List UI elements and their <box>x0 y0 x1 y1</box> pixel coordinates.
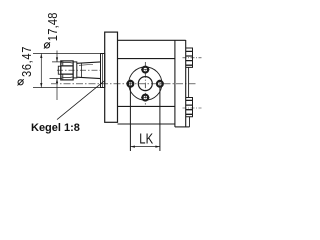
pilot circle Ø36,47 front <box>129 67 162 100</box>
pilot boss <box>101 54 105 88</box>
rear cover outer skin line <box>188 67 191 127</box>
bottom port boss <box>186 98 193 117</box>
LK dimension line <box>130 146 160 148</box>
diameter symbol for 17,48 <box>44 42 50 48</box>
bottom port centerline <box>183 107 202 109</box>
rear cover right edge <box>185 40 187 127</box>
svg-text:36,47: 36,47 <box>19 46 34 77</box>
dimension Ø17,48: dimension line with outside arrows <box>56 51 58 101</box>
washer <box>73 62 77 78</box>
tapered shaft (Kegel 1:8) <box>77 62 101 79</box>
thread relief line on taper <box>81 63 83 77</box>
svg-text:LK: LK <box>139 130 153 147</box>
leader line for Kegel 1:8 <box>57 80 105 119</box>
dimension Ø36,47: extension lines <box>33 54 101 88</box>
front view flange bottom edge <box>118 105 175 107</box>
shaft threaded tip <box>58 66 61 74</box>
front view body top edge <box>118 39 186 41</box>
top port boss <box>186 48 193 67</box>
rear cover left edge <box>174 40 176 127</box>
LK dimension extension lines <box>130 87 160 151</box>
vertical centerline front view <box>144 62 146 105</box>
bolt hole bottom <box>142 95 148 101</box>
bolt hole right <box>157 81 163 87</box>
center hole circle <box>138 77 152 91</box>
hex nut <box>61 61 73 80</box>
svg-text:Kegel 1:8: Kegel 1:8 <box>31 122 80 134</box>
bolt hole top <box>142 67 148 73</box>
front view body bottom edge <box>118 123 175 125</box>
dimension Ø17,48: extension lines <box>50 62 63 79</box>
centerline main axis (front view) <box>51 83 196 85</box>
rear cover bottom edge <box>175 126 190 128</box>
top port centerline <box>183 57 202 59</box>
front view flange top edge <box>118 58 175 60</box>
dimension Ø36,47: dimension line with arrows <box>40 54 42 88</box>
bolt hole left <box>127 81 133 87</box>
svg-text:17,48: 17,48 <box>45 12 60 41</box>
diameter symbol for 36,47 <box>18 79 24 85</box>
centerline shaft axis (side view) <box>57 69 103 71</box>
flange plate (side view) <box>105 32 118 122</box>
